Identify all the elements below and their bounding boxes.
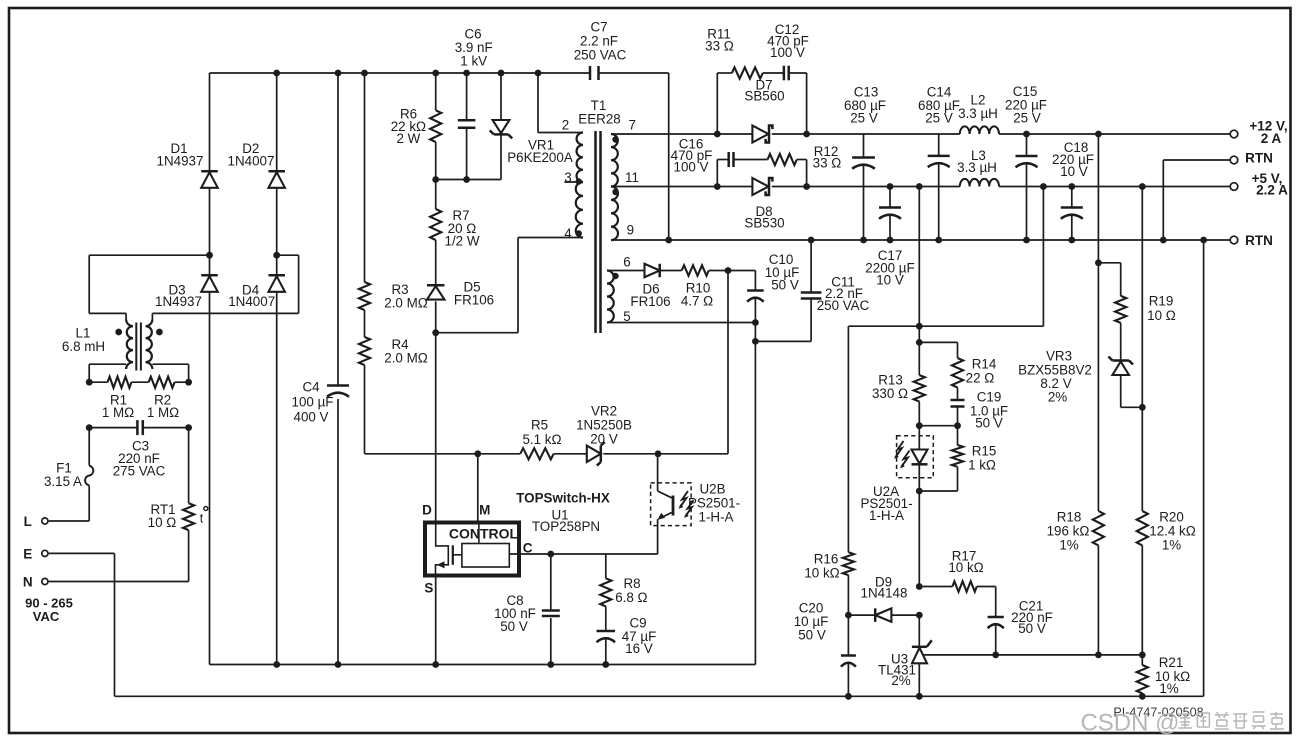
snubber R11 — [705, 27, 784, 134]
U1 pin labels — [422, 503, 533, 596]
svg-text:3: 3 — [564, 170, 571, 185]
svg-text:10 V: 10 V — [1060, 164, 1088, 179]
wire L to fuse — [49, 486, 89, 522]
zener VR3 — [1018, 349, 1146, 411]
svg-text:6.8 Ω: 6.8 Ω — [615, 590, 647, 605]
svg-text:P6KE200A: P6KE200A — [507, 150, 573, 165]
wire AC1 node — [89, 252, 213, 314]
svg-text:1%: 1% — [1159, 681, 1178, 696]
label U1 — [516, 491, 610, 535]
svg-text:100 µF: 100 µF — [292, 395, 334, 410]
svg-text:1N5250B: 1N5250B — [576, 418, 632, 433]
svg-text:250 VAC: 250 VAC — [817, 298, 870, 313]
diode D3 — [155, 255, 218, 664]
resistor R15 — [952, 426, 996, 491]
svg-text:R20: R20 — [1159, 510, 1184, 525]
svg-text:10 V: 10 V — [876, 273, 904, 288]
wire earth line — [115, 240, 1204, 696]
capacitor C21 — [988, 587, 1053, 659]
wire R13 top node — [916, 326, 923, 346]
resistor R8 — [600, 554, 647, 606]
svg-text:196 kΩ: 196 kΩ — [1047, 524, 1090, 539]
svg-text:12.4 kΩ: 12.4 kΩ — [1149, 524, 1196, 539]
diode D9 — [848, 575, 922, 622]
svg-text:C4: C4 — [302, 380, 320, 395]
wire M pin — [477, 454, 479, 521]
capacitor C13 — [844, 85, 886, 240]
resistor R10 — [660, 265, 756, 308]
U1 internal MOSFET — [436, 521, 462, 578]
svg-text:C19: C19 — [977, 390, 1002, 405]
svg-text:SB560: SB560 — [744, 89, 784, 104]
resistor R19 — [1098, 263, 1175, 361]
terminal RTN upper — [1163, 151, 1273, 240]
svg-text:TOP258PN: TOP258PN — [532, 519, 600, 534]
svg-text:50 V: 50 V — [1018, 621, 1046, 636]
svg-text:R16: R16 — [814, 552, 839, 567]
U1 control block — [462, 521, 509, 567]
svg-text:6: 6 — [623, 255, 630, 270]
capacitor C18 — [1052, 140, 1094, 240]
wire E run — [49, 553, 115, 696]
zener VR2 — [576, 404, 728, 466]
wire drain node — [432, 238, 583, 337]
wire clamp bottom — [432, 176, 501, 183]
svg-text:2 A: 2 A — [1261, 131, 1282, 146]
svg-text:SB530: SB530 — [744, 216, 784, 231]
resistor R17 — [919, 549, 995, 592]
svg-text:50 V: 50 V — [500, 619, 528, 634]
resistor R18 — [1047, 263, 1104, 655]
terminal +12V — [1230, 119, 1287, 147]
transformer T1 secondary 7-11 — [611, 118, 752, 187]
diode D5 — [427, 240, 494, 333]
wire T1 pin5 — [607, 322, 755, 324]
svg-text:1N4937: 1N4937 — [157, 154, 204, 169]
svg-text:7: 7 — [628, 118, 635, 133]
resistor R2 — [147, 377, 179, 421]
wire S pin — [435, 578, 437, 665]
wire R4 to R5 line — [364, 365, 366, 454]
svg-text:2.0 MΩ: 2.0 MΩ — [384, 351, 428, 366]
svg-text:4.7 Ω: 4.7 Ω — [681, 294, 713, 309]
svg-text:10 Ω: 10 Ω — [148, 515, 177, 530]
svg-text:4: 4 — [564, 226, 572, 241]
svg-text:L: L — [24, 514, 32, 529]
svg-text:R21: R21 — [1159, 655, 1184, 670]
svg-text:1N4007: 1N4007 — [228, 294, 275, 309]
capacitor C4 — [292, 73, 349, 665]
svg-text:R14: R14 — [972, 357, 997, 372]
wire R18 column — [1095, 134, 1102, 266]
svg-text:R18: R18 — [1057, 510, 1082, 525]
wire AC2 node — [152, 252, 298, 314]
wire drain to U1 — [435, 333, 437, 521]
terminal E — [23, 546, 48, 561]
wire HV+ top rail — [210, 70, 591, 77]
svg-text:1 kV: 1 kV — [460, 54, 487, 69]
capacitor C20 — [794, 601, 856, 700]
resistor R21 — [1137, 655, 1190, 700]
wire left node L1 to R1 — [88, 364, 90, 382]
wire TL431 ref line — [923, 652, 1146, 659]
svg-text:U2B: U2B — [699, 482, 725, 497]
label input voltage — [25, 596, 73, 625]
wire C pin — [509, 551, 657, 558]
optocoupler U2B — [651, 454, 740, 554]
svg-text:11: 11 — [625, 170, 639, 185]
svg-text:3.15 A: 3.15 A — [44, 474, 82, 489]
IC U1 box — [425, 523, 519, 576]
svg-text:1-H-A: 1-H-A — [869, 508, 904, 523]
svg-text:275 VAC: 275 VAC — [113, 464, 166, 479]
wire LED top node — [916, 422, 961, 429]
label L1 — [62, 325, 105, 354]
svg-text:50 V: 50 V — [798, 628, 826, 643]
resistor R20 — [1137, 510, 1196, 655]
capacitor C17 — [865, 187, 914, 288]
svg-text:5.1 kΩ: 5.1 kΩ — [522, 432, 561, 447]
svg-text:2.0 MΩ: 2.0 MΩ — [384, 296, 428, 311]
wire primary return rail — [210, 661, 756, 668]
svg-text:25 V: 25 V — [925, 111, 953, 126]
svg-text:1%: 1% — [1059, 538, 1078, 553]
wire +12 rectified — [714, 131, 960, 138]
capacitor C10 — [747, 252, 799, 664]
wire right node L1 to R2 — [188, 364, 190, 382]
svg-text:9: 9 — [627, 222, 634, 237]
snubber C16 — [671, 137, 768, 187]
svg-text:3.3 µH: 3.3 µH — [958, 106, 998, 121]
svg-text:2.2 nF: 2.2 nF — [580, 34, 618, 49]
optocoupler U2A LED — [860, 426, 933, 523]
svg-text:22 Ω: 22 Ω — [966, 371, 995, 386]
watermark — [1080, 710, 1284, 737]
wire R6 bottom — [435, 142, 437, 180]
svg-text:R19: R19 — [1149, 294, 1174, 309]
svg-text:C7: C7 — [590, 20, 607, 35]
svg-text:1-H-A: 1-H-A — [699, 510, 734, 525]
svg-text:250 VAC: 250 VAC — [574, 48, 627, 63]
snubber C12 — [767, 22, 809, 134]
svg-text:3.3 µH: 3.3 µH — [957, 160, 997, 175]
wire LED bottom node — [916, 488, 958, 495]
svg-text:2%: 2% — [891, 673, 910, 688]
capacitor C15 — [1005, 84, 1047, 240]
svg-text:50 V: 50 V — [771, 278, 799, 293]
svg-text:N: N — [23, 575, 33, 590]
wire +5 output — [999, 183, 1230, 190]
wire C3 row — [86, 424, 192, 431]
svg-text:1 MΩ: 1 MΩ — [147, 405, 179, 420]
wire R20 column — [1141, 187, 1143, 512]
resistor R3 — [359, 73, 428, 311]
fuse F1 — [44, 461, 93, 489]
svg-text:PS2501-: PS2501- — [688, 496, 740, 511]
choke L1 right winding — [146, 313, 189, 369]
svg-text:1 MΩ: 1 MΩ — [102, 405, 134, 420]
terminal RTN lower — [1230, 233, 1273, 248]
svg-text:1%: 1% — [1162, 538, 1181, 553]
svg-text:100 V: 100 V — [770, 45, 805, 60]
resistor R7 — [430, 180, 480, 249]
svg-text:33 Ω: 33 Ω — [813, 156, 842, 171]
svg-text:1 kΩ: 1 kΩ — [968, 458, 996, 473]
terminal L — [24, 514, 48, 529]
terminal N — [23, 575, 48, 590]
svg-text:1N4937: 1N4937 — [155, 294, 202, 309]
svg-text:10 Ω: 10 Ω — [1147, 308, 1176, 323]
wire +5 rectified — [714, 183, 960, 190]
svg-text:FR106: FR106 — [630, 294, 670, 309]
svg-text:CSDN @: CSDN @ — [1080, 710, 1179, 737]
capacitor C3 — [113, 420, 166, 479]
wire +5 feedback tap — [848, 187, 1043, 330]
capacitor C11 — [755, 240, 869, 341]
wire VR2 to bias — [727, 271, 729, 454]
svg-text:2%: 2% — [1048, 390, 1067, 405]
snubber R12 — [768, 144, 842, 186]
transformer T1 secondary 11-9 — [611, 170, 752, 240]
svg-text:1N4007: 1N4007 — [228, 154, 275, 169]
svg-text:20 V: 20 V — [590, 432, 618, 447]
diode D4 — [228, 255, 285, 664]
transformer T1 pin3 stub — [564, 170, 583, 237]
svg-text:VAC: VAC — [33, 609, 60, 624]
thermistor RT1 — [148, 502, 208, 530]
wire RTN rail — [665, 237, 1230, 244]
svg-text:1/2 W: 1/2 W — [445, 234, 480, 249]
transformer T1 primary upper — [538, 73, 583, 182]
choke L1 left winding — [89, 313, 133, 369]
wire RT1 to C3 right node — [188, 428, 190, 504]
wire N to RT1 — [49, 530, 189, 581]
svg-text:50 V: 50 V — [975, 416, 1003, 431]
svg-text:t: t — [200, 512, 204, 526]
svg-text:S: S — [424, 581, 433, 596]
svg-text:D: D — [422, 503, 432, 518]
svg-text:EER28: EER28 — [578, 112, 620, 127]
capacitor C19 — [951, 388, 1009, 431]
transformer T1 bias winding — [607, 255, 631, 325]
svg-text:25 V: 25 V — [1013, 111, 1041, 126]
resistor R4 — [359, 310, 428, 366]
inductor L3 — [957, 148, 999, 187]
resistor R16 — [804, 326, 854, 618]
wire fuse to C3 node — [88, 428, 90, 466]
wire feedback column top — [918, 187, 920, 327]
svg-text:16 V: 16 V — [625, 641, 653, 656]
svg-text:25 V: 25 V — [850, 111, 878, 126]
svg-text:1N4148: 1N4148 — [861, 586, 908, 601]
svg-text:RTN: RTN — [1245, 151, 1273, 166]
resistor R6 — [391, 73, 442, 146]
terminal +5V — [1230, 171, 1288, 198]
resistor R13 — [872, 342, 925, 425]
wire +12 output — [999, 131, 1230, 138]
choke L1 core — [136, 323, 141, 371]
svg-text:2.2 A: 2.2 A — [1256, 183, 1288, 198]
svg-text:VR2: VR2 — [591, 404, 617, 419]
svg-text:R5: R5 — [531, 418, 548, 433]
svg-text:330 Ω: 330 Ω — [872, 386, 908, 401]
diode D2 — [228, 73, 285, 255]
svg-text:TOPSwitch-HX: TOPSwitch-HX — [516, 491, 610, 506]
inductor L2 — [958, 93, 999, 134]
svg-text:L1: L1 — [76, 325, 91, 340]
choke L1 phase dots — [115, 329, 163, 336]
svg-text:10 kΩ: 10 kΩ — [948, 560, 983, 575]
svg-text:400 V: 400 V — [294, 410, 329, 425]
capacitor C14 — [918, 85, 960, 240]
wire opto cathode column — [916, 491, 923, 590]
svg-text:M: M — [479, 503, 490, 518]
svg-text:R8: R8 — [623, 576, 640, 591]
capacitor C7 — [574, 20, 669, 240]
resistor R14 — [919, 342, 997, 387]
capacitor C8 — [494, 554, 560, 665]
resistor R1 — [102, 377, 134, 421]
resistor R5 — [520, 418, 587, 460]
svg-text:2: 2 — [562, 118, 569, 133]
svg-text:33 Ω: 33 Ω — [705, 39, 734, 54]
zener VR1 — [490, 73, 573, 180]
transformer T1 pin4 — [564, 226, 582, 241]
svg-text:E: E — [23, 546, 32, 561]
svg-text:R15: R15 — [972, 444, 997, 459]
diode D8 — [744, 178, 784, 231]
diode D1 — [157, 73, 218, 255]
wire R5 line — [365, 450, 521, 457]
svg-text:FR106: FR106 — [454, 293, 494, 308]
svg-text:RTN: RTN — [1245, 233, 1273, 248]
svg-text:6.8 mH: 6.8 mH — [62, 339, 105, 354]
transformer T1 pin9 lead — [611, 222, 669, 240]
wire R1-R2 row — [86, 379, 192, 386]
transformer T1 core — [578, 98, 620, 333]
shunt regulator U3 TL431 — [878, 615, 932, 700]
diode D6 — [607, 264, 671, 309]
capacitor C9 — [597, 606, 657, 664]
svg-text:100 V: 100 V — [674, 160, 709, 175]
svg-text:2 W: 2 W — [396, 131, 420, 146]
label PI number — [1113, 706, 1203, 720]
diode D7 — [744, 78, 784, 143]
svg-text:CONTROL: CONTROL — [449, 525, 519, 541]
capacitor C6 — [455, 27, 493, 180]
svg-text:VR3: VR3 — [1046, 349, 1072, 364]
svg-text:10 kΩ: 10 kΩ — [804, 566, 839, 581]
